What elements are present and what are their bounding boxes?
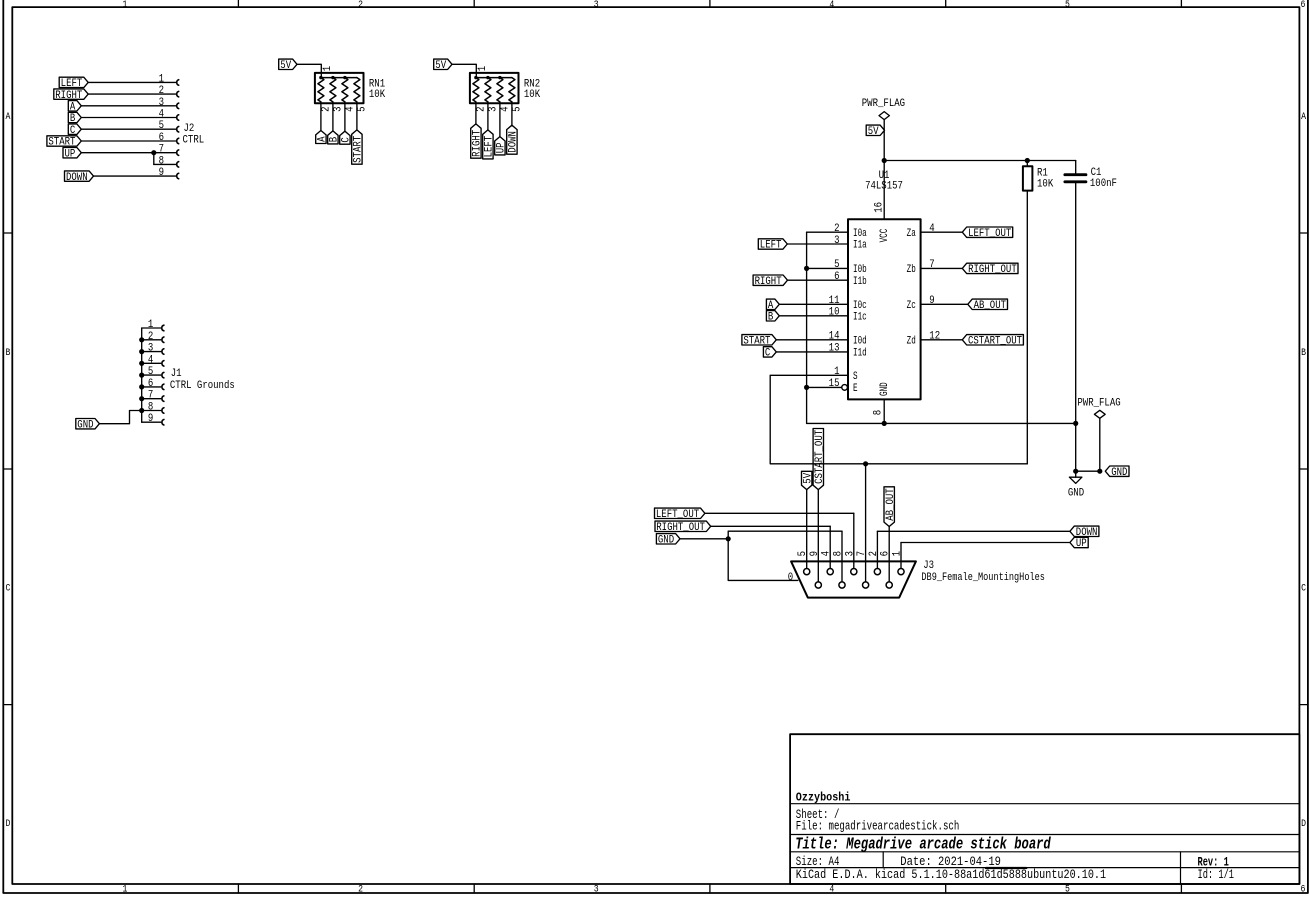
svg-text:7: 7 [856,551,868,556]
svg-text:Zd: Zd [907,334,916,347]
svg-text:6: 6 [159,132,164,144]
svg-text:GND: GND [1111,467,1127,479]
svg-text:1: 1 [834,366,839,378]
svg-text:9: 9 [148,414,153,426]
svg-text:I1b: I1b [853,275,867,288]
svg-text:13: 13 [829,343,840,355]
svg-text:5: 5 [357,106,369,111]
svg-text:5: 5 [798,551,810,556]
svg-text:6: 6 [834,271,839,283]
svg-text:GND: GND [878,382,891,396]
svg-text:START: START [353,136,365,163]
svg-text:8: 8 [833,551,845,556]
svg-text:I0d: I0d [853,334,867,347]
svg-text:2: 2 [321,106,333,111]
svg-text:8: 8 [159,156,164,168]
svg-text:RIGHT_OUT: RIGHT_OUT [656,522,705,534]
svg-text:3: 3 [834,235,839,247]
svg-text:10: 10 [829,307,840,319]
svg-text:LEFT_OUT: LEFT_OUT [968,228,1011,240]
svg-text:1: 1 [322,66,334,71]
svg-text:AB_OUT: AB_OUT [885,488,897,520]
svg-text:C: C [1301,582,1306,594]
svg-text:B: B [768,312,773,324]
svg-text:C: C [5,582,10,594]
svg-text:6: 6 [1301,883,1306,895]
svg-text:7: 7 [148,390,153,402]
svg-text:J2: J2 [184,124,195,136]
svg-text:1: 1 [123,0,128,10]
svg-text:B: B [1301,346,1306,358]
svg-text:74LS157: 74LS157 [865,181,903,193]
svg-text:B: B [5,346,10,358]
svg-text:GND: GND [77,420,93,432]
svg-text:1: 1 [123,883,128,895]
svg-text:12: 12 [929,331,940,343]
svg-text:GND: GND [1068,488,1084,500]
svg-text:4: 4 [148,355,153,367]
svg-text:CSTART_OUT: CSTART_OUT [968,336,1022,348]
svg-text:D: D [5,817,10,829]
svg-text:KiCad E.D.A. kicad 5.1.10-88a: KiCad E.D.A. kicad 5.1.10-88a1d61d5888ub… [796,867,1106,883]
svg-text:2: 2 [834,223,839,235]
svg-text:3: 3 [594,0,599,10]
svg-text:6: 6 [148,378,153,390]
svg-text:A: A [1301,110,1306,122]
svg-text:1: 1 [148,319,153,331]
svg-text:S: S [853,370,858,383]
svg-text:File: megadrivearcadestick.sch: File: megadrivearcadestick.sch [796,820,960,834]
svg-text:1: 1 [477,66,489,71]
svg-text:A: A [5,110,10,122]
svg-text:Ozzyboshi: Ozzyboshi [796,792,851,805]
svg-text:Zb: Zb [907,263,916,276]
svg-text:10K: 10K [524,89,541,101]
svg-text:RIGHT: RIGHT [755,276,782,288]
svg-text:0: 0 [788,572,793,584]
svg-text:11: 11 [829,295,840,307]
svg-text:3: 3 [148,343,153,355]
svg-text:CSTART_OUT: CSTART_OUT [814,430,826,484]
svg-text:Title: Megadrive arcade stick: Title: Megadrive arcade stick board [795,836,1052,854]
svg-text:15: 15 [829,379,840,391]
svg-text:3: 3 [594,883,599,895]
svg-text:5: 5 [1065,0,1070,10]
svg-text:5: 5 [512,106,524,111]
svg-text:6: 6 [1301,0,1306,10]
svg-text:10K: 10K [1037,179,1054,191]
svg-text:3: 3 [845,551,857,556]
svg-text:GND: GND [658,535,674,547]
svg-text:16: 16 [874,202,886,213]
svg-text:5: 5 [159,121,164,133]
svg-text:C: C [765,348,770,360]
svg-text:CTRL: CTRL [183,135,205,147]
svg-text:5: 5 [834,260,839,272]
svg-text:CTRL Grounds: CTRL Grounds [170,379,235,392]
svg-text:4: 4 [159,109,164,121]
svg-text:Zc: Zc [907,299,916,312]
svg-text:7: 7 [929,260,934,272]
svg-text:LEFT: LEFT [760,240,782,252]
svg-text:5V: 5V [868,126,879,138]
svg-text:2: 2 [159,85,164,97]
svg-text:1: 1 [159,74,164,86]
svg-text:4: 4 [500,106,512,111]
svg-text:10K: 10K [369,89,386,101]
svg-text:I1d: I1d [853,346,867,359]
svg-text:14: 14 [829,331,840,343]
svg-text:9: 9 [929,295,934,307]
svg-text:7: 7 [159,144,164,156]
svg-text:2: 2 [868,551,880,556]
svg-text:PWR_FLAG: PWR_FLAG [862,98,905,110]
svg-text:1: 1 [892,551,904,556]
svg-text:3: 3 [333,106,345,111]
svg-text:3: 3 [159,97,164,109]
svg-text:8: 8 [873,410,885,415]
svg-text:VCC: VCC [878,228,891,242]
svg-text:E: E [853,382,858,395]
svg-text:4: 4 [929,223,934,235]
svg-text:I1a: I1a [853,239,867,252]
svg-text:Za: Za [907,227,917,240]
svg-text:RIGHT_OUT: RIGHT_OUT [968,264,1017,276]
svg-text:3: 3 [488,106,500,111]
svg-text:UP: UP [64,149,75,161]
svg-text:4: 4 [345,106,357,111]
svg-text:J1: J1 [171,369,182,381]
svg-text:4: 4 [829,0,834,10]
svg-text:Id: 1/1: Id: 1/1 [1198,869,1235,883]
svg-text:5V: 5V [280,60,291,72]
svg-text:9: 9 [159,167,164,179]
svg-text:5V: 5V [435,60,446,72]
svg-text:2: 2 [476,106,488,111]
svg-text:I0b: I0b [853,263,867,276]
svg-text:D: D [1301,817,1306,829]
svg-text:2: 2 [148,331,153,343]
svg-text:DOWN: DOWN [66,172,88,184]
svg-text:DB9_Female_MountingHoles: DB9_Female_MountingHoles [921,571,1045,583]
svg-text:6: 6 [880,551,892,556]
svg-text:4: 4 [821,551,833,556]
svg-text:9: 9 [809,551,821,556]
svg-text:2: 2 [358,0,363,10]
svg-text:LEFT_OUT: LEFT_OUT [656,509,699,521]
svg-text:AB_OUT: AB_OUT [974,300,1006,312]
svg-text:100nF: 100nF [1090,179,1117,191]
svg-text:I1c: I1c [853,310,867,323]
svg-text:I0a: I0a [853,227,867,240]
svg-text:UP: UP [1076,539,1087,551]
svg-text:PWR_FLAG: PWR_FLAG [1077,398,1120,410]
svg-text:5: 5 [148,366,153,378]
svg-text:8: 8 [148,402,153,414]
svg-text:2: 2 [358,883,363,895]
svg-text:DOWN: DOWN [508,131,520,153]
